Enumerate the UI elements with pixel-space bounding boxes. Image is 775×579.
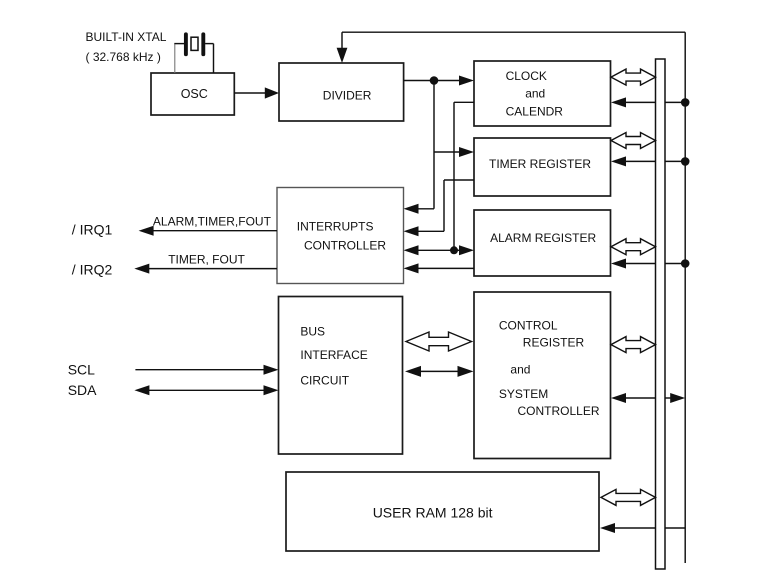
svg-text:INTERFACE: INTERFACE [300, 348, 367, 362]
svg-text:and: and [525, 87, 545, 101]
svg-text:REGISTER: REGISTER [523, 336, 585, 350]
svg-text:SDA: SDA [68, 382, 97, 398]
svg-text:SCL: SCL [68, 362, 95, 378]
svg-text:CIRCUIT: CIRCUIT [300, 373, 349, 387]
svg-text:CALENDR: CALENDR [506, 104, 564, 118]
svg-text:BUS: BUS [300, 324, 325, 338]
svg-text:ALARM REGISTER: ALARM REGISTER [490, 231, 596, 245]
svg-text:/ IRQ2: / IRQ2 [72, 262, 113, 278]
svg-text:ALARM,TIMER,FOUT: ALARM,TIMER,FOUT [153, 214, 272, 228]
svg-text:and: and [510, 363, 530, 377]
svg-text:DIVIDER: DIVIDER [323, 89, 372, 103]
svg-text:CLOCK: CLOCK [506, 69, 547, 83]
svg-text:CONTROLLER: CONTROLLER [304, 239, 386, 253]
svg-text:INTERRUPTS: INTERRUPTS [297, 220, 374, 234]
svg-text:CONTROL: CONTROL [499, 318, 558, 332]
svg-text:BUILT-IN XTAL: BUILT-IN XTAL [86, 30, 167, 44]
svg-text:CONTROLLER: CONTROLLER [518, 404, 600, 418]
svg-text:SYSTEM: SYSTEM [499, 387, 548, 401]
svg-text:TIMER, FOUT: TIMER, FOUT [168, 252, 245, 266]
svg-text:( 32.768 kHz ): ( 32.768 kHz ) [86, 50, 161, 64]
svg-text:TIMER REGISTER: TIMER REGISTER [489, 157, 591, 171]
svg-text:USER RAM 128 bit: USER RAM 128 bit [373, 504, 493, 520]
svg-text:OSC: OSC [181, 87, 208, 101]
svg-text:/ IRQ1: / IRQ1 [72, 222, 113, 238]
